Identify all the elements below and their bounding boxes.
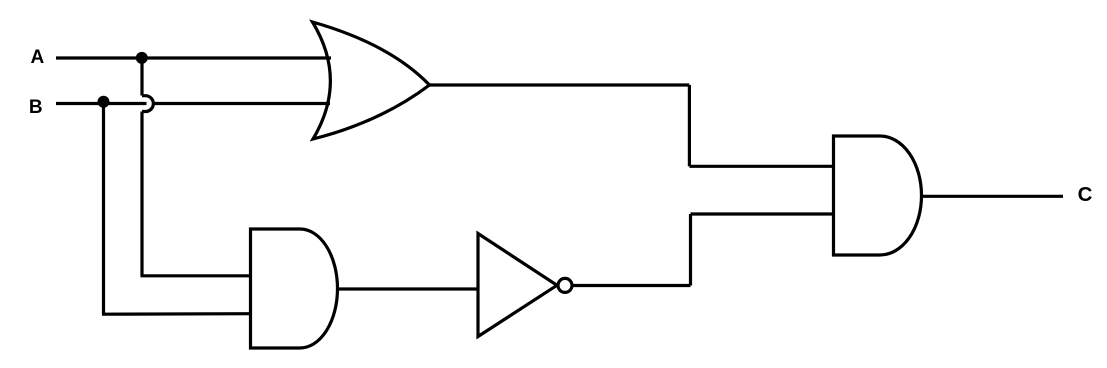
- AND gate U4 (output gate): [834, 136, 922, 255]
- wire B horizontal left of hop: [56, 102, 147, 105]
- junction dot on B wire: [98, 96, 110, 108]
- wire inverter output vertical up: [689, 214, 692, 286]
- AND gate U2 (lower left): [251, 229, 338, 348]
- wire A vertical upper segment (dot to hop): [140, 58, 143, 96]
- wire to AND2 input 1: [689, 165, 833, 168]
- svg-text:B: B: [29, 97, 43, 118]
- OR gate U1: [313, 22, 430, 139]
- wire A horizontal: [56, 56, 331, 59]
- wire B horizontal right of hop: [153, 102, 331, 105]
- wire OR output vertical down: [688, 85, 691, 166]
- wire A vertical lower segment (hop to elbow): [140, 112, 143, 276]
- wire hop arc over B wire: [142, 96, 153, 112]
- wire inverter output horizontal: [572, 284, 691, 287]
- wire B elbow to AND1 input 2: [102, 312, 252, 316]
- wire A elbow to AND1 input 1: [141, 274, 252, 277]
- inverter U3 bubble: [558, 278, 572, 292]
- svg-text:C: C: [1078, 183, 1093, 206]
- junction dot on A wire: [136, 52, 148, 64]
- wire C output: [922, 195, 1063, 198]
- wire B vertical (dot to elbow): [102, 102, 105, 314]
- wire OR output horizontal: [430, 83, 690, 86]
- wire to AND3 input 2: [691, 212, 834, 215]
- svg-text:A: A: [31, 47, 45, 68]
- inverter U3 triangle: [478, 234, 557, 337]
- wire AND2 output to inverter: [338, 287, 478, 290]
